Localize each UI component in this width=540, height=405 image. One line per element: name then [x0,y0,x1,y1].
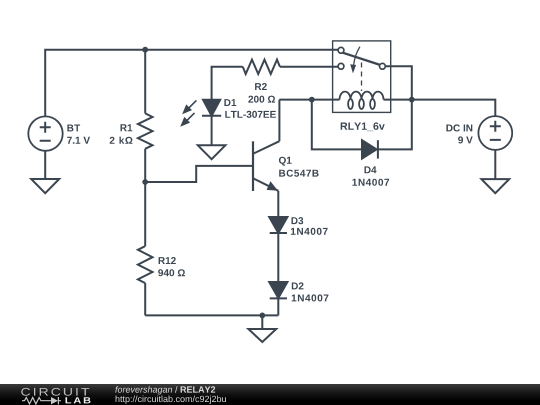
wire DC IN negative to ground [494,150,496,179]
voltage source DC IN [478,116,512,150]
wire D4 left loop [312,100,362,150]
label D3 name [292,217,304,224]
wire battery positive to relay switch pin (top net) [45,50,341,117]
relay pin circle 1 (common top) [338,47,344,53]
wire battery negative to ground [44,151,46,179]
label R12 name [159,257,176,264]
label BT value [67,137,90,144]
junction node top R1 [142,47,148,53]
label D2 name [292,282,304,289]
label D4 name [365,166,377,173]
logo LAB wordmark [66,397,91,403]
ground (bottom net) [248,329,276,342]
wire coil right to DC IN [384,100,496,117]
wire R2 left / D1 top [212,67,243,100]
LED arrow 1 [184,100,197,112]
resistor R2 [243,60,280,74]
footer title forevershagan / RELAY2 [115,386,215,394]
wire base node jog to Q1 [145,166,253,182]
relay actuation dashed line [361,63,363,92]
voltage source BT [28,116,62,150]
wire D3 to D2 [277,233,279,282]
wire R2 right to relay throw pin [280,66,338,68]
logo CIRCUIT wordmark [21,388,89,396]
label D1 value [225,111,276,118]
wire D4 right to relay pole [378,66,412,149]
diode D2 1N4007 [269,282,287,298]
diode D1 (LED LTL-307EE) [202,100,221,116]
ground (D1) [198,145,226,159]
label D1 name [224,99,236,106]
LED arrow 2 [182,113,195,125]
junction node base [142,179,148,185]
transistor Q1 BC547B [253,141,279,191]
Q1 emitter arrow [267,182,277,190]
resistor R12 [138,246,153,283]
relay coil [340,92,384,109]
footer url [116,396,226,404]
wire Q1 collector vertical [278,100,280,142]
label D3 value [291,228,328,235]
relay switch motion arrow [351,47,360,72]
label BT name [67,125,80,132]
label D4 value [352,179,389,186]
label DC IN value [458,136,473,143]
resistor R1 [138,113,153,148]
label R1 value [110,137,133,144]
label R12 value [158,269,185,276]
label DC IN name [446,124,472,131]
junction node coil left [309,97,315,103]
ground (DC IN) [481,179,509,193]
wire D2 to bottom net [277,298,279,315]
wire collector to coil left [279,99,339,101]
wire D1 cathode to ground [211,116,213,146]
label Q1 name [279,157,292,166]
label R2 name [255,83,267,90]
label RLY1 name [341,122,385,131]
relay pin circle 2 (NC throw) [338,63,344,69]
relay pin circle 3 (pole) [380,63,386,69]
ground (battery) [31,179,59,193]
wire bottom horizontal to D2 [145,314,278,316]
diode D3 1N4007 [269,217,287,233]
label R1 name [121,124,133,131]
wire R1 bottom to R12 top [144,149,146,246]
diode D4 1N4007 [362,140,378,158]
wire R1 top column [144,50,146,114]
label Q1 value [279,170,318,177]
junction node coil right [409,97,415,103]
label D2 value [292,294,329,301]
wire R12 bottom [144,283,146,315]
relay RLY1_6v box [333,41,391,113]
junction node bottom ground [259,313,265,319]
logo waveform resistor-diode [22,397,61,404]
label R2 value [248,96,275,103]
relay switch arm [343,53,380,65]
wire ground stub bottom [261,315,263,329]
logo waveform diode triangle [51,397,58,404]
wire Q1 emitter to D3 [277,191,279,217]
